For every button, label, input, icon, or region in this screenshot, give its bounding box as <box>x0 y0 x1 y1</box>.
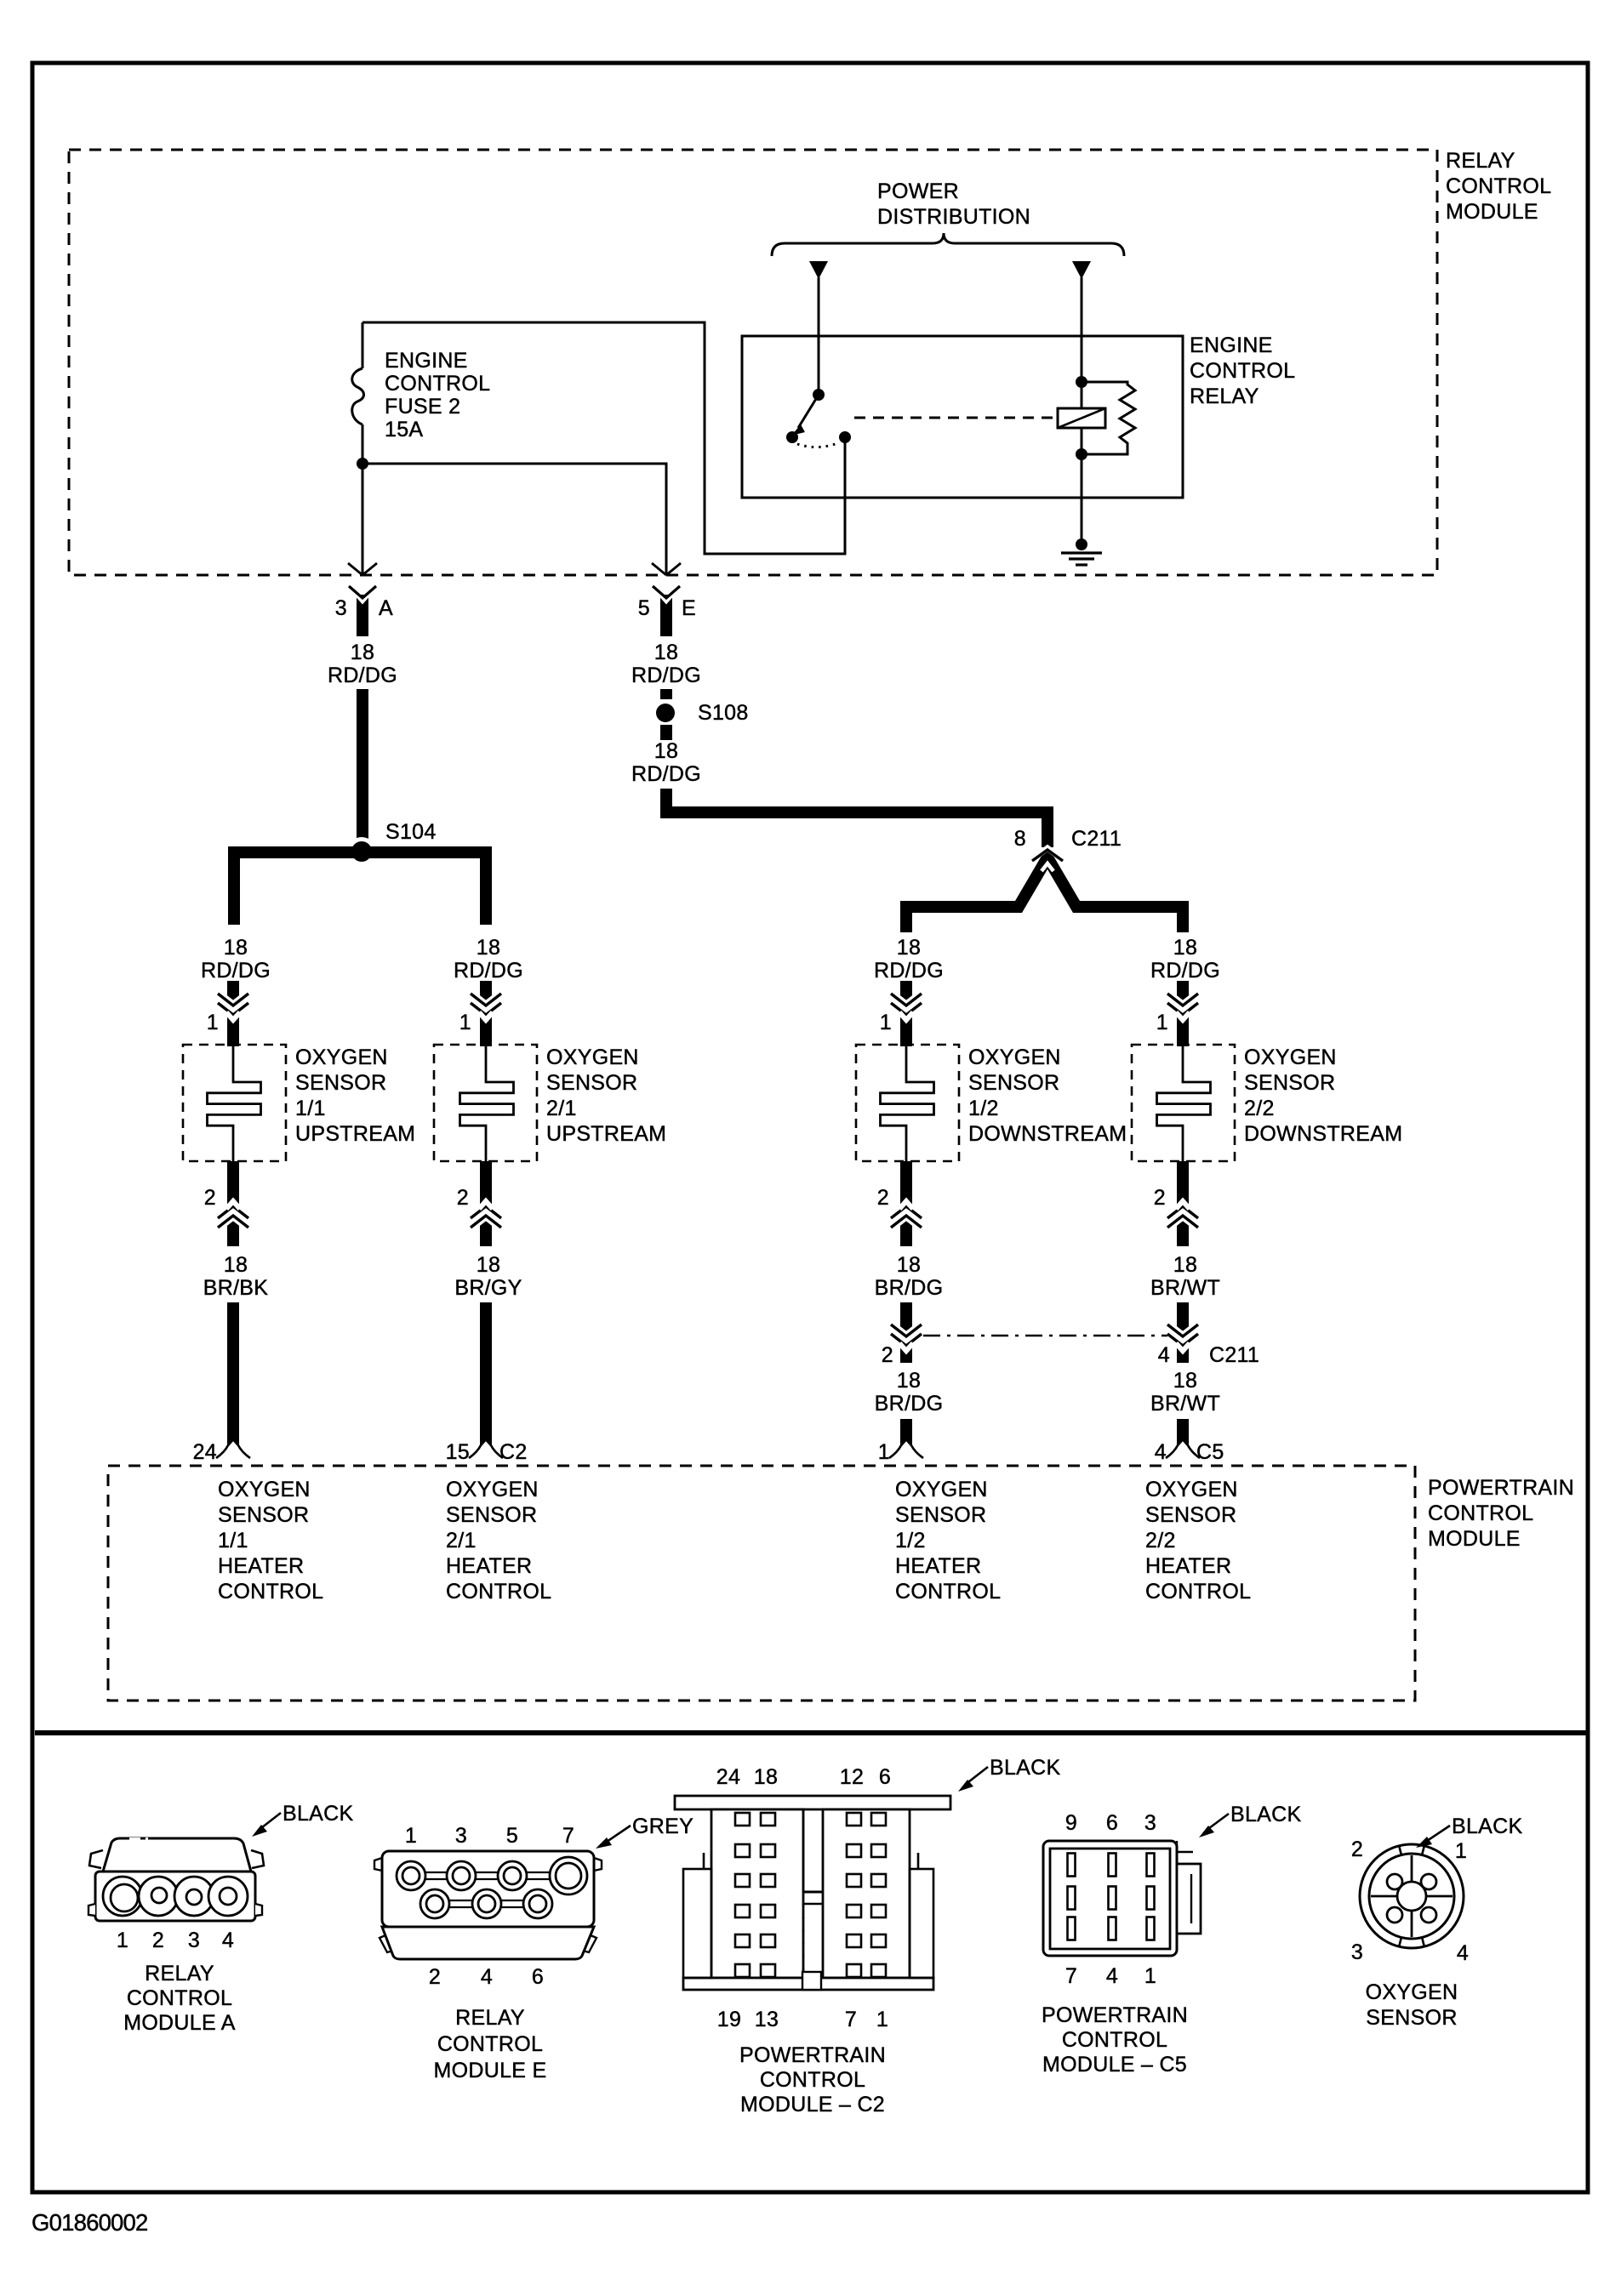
svg-text:CONTROL: CONTROL <box>127 1986 232 2010</box>
svg-text:18: 18 <box>897 1369 921 1393</box>
svg-text:ENGINE: ENGINE <box>1190 333 1273 357</box>
svg-text:CONTROL: CONTROL <box>1446 174 1551 198</box>
svg-text:POWERTRAIN: POWERTRAIN <box>739 2043 886 2067</box>
wire label 18 BR/DG (1/2) <box>875 1253 944 1300</box>
svg-text:G01860002: G01860002 <box>31 2209 148 2236</box>
svg-text:MODULE – C5: MODULE – C5 <box>1042 2053 1187 2077</box>
svg-text:HEATER: HEATER <box>218 1554 304 1578</box>
svg-text:RD/DG: RD/DG <box>631 762 701 786</box>
power feed arrow right <box>1072 261 1091 279</box>
wire label 18 RD/DG (branch 2/1) <box>454 936 523 983</box>
wire 1/2 to PCM pin 1 <box>900 1419 912 1451</box>
svg-text:CONTROL: CONTROL <box>1190 359 1295 383</box>
connector chevron pin 2 (2/1) <box>471 1201 501 1228</box>
label OXYGEN SENSOR 2/1 <box>546 1045 666 1146</box>
svg-text:3: 3 <box>1144 1811 1156 1835</box>
svg-text:24: 24 <box>193 1440 217 1464</box>
label ENGINE CONTROL FUSE 2 15A <box>385 349 490 442</box>
figure number G01860002 <box>31 2209 148 2236</box>
svg-text:BR/WT: BR/WT <box>1150 1392 1220 1416</box>
engine control fuse 2 <box>352 322 364 464</box>
svg-text:18: 18 <box>224 1253 248 1277</box>
wire 2/2 to PCM pin 4 <box>1177 1419 1189 1451</box>
svg-text:18: 18 <box>1173 1253 1197 1277</box>
svg-text:POWERTRAIN: POWERTRAIN <box>1042 2003 1188 2027</box>
svg-text:1: 1 <box>207 1011 219 1034</box>
svg-text:RD/DG: RD/DG <box>454 959 523 983</box>
wire label 18 RD/DG (right feed lower) <box>631 739 701 786</box>
svg-text:2: 2 <box>877 1186 889 1210</box>
oxygen sensor 1/2 box <box>856 1045 959 1161</box>
label BLACK (module A) <box>252 1802 354 1837</box>
svg-text:4: 4 <box>1457 1941 1469 1965</box>
svg-text:HEATER: HEATER <box>895 1554 981 1578</box>
wire label 18 BR/BK (1/1) <box>203 1253 269 1300</box>
relay mechanical link (dashed) <box>854 417 1058 419</box>
svg-text:7: 7 <box>1065 1964 1077 1988</box>
svg-text:5: 5 <box>506 1824 518 1848</box>
wire stub below pin E <box>659 593 673 636</box>
powertrain control module boundary <box>108 1466 1415 1701</box>
wire branch 2/2 to sensor <box>1177 981 1189 1046</box>
svg-text:GREY: GREY <box>632 1815 693 1838</box>
wire label 18 BR/WT (2/2) <box>1150 1253 1220 1300</box>
relay coil <box>1058 376 1105 460</box>
wire label 18 RD/DG (branch 1/2) <box>874 936 944 983</box>
svg-text:15A: 15A <box>385 418 423 442</box>
wire stub below sensor 2/1 <box>480 1161 492 1246</box>
pin labels 24 18 12 6 (C2) <box>716 1765 891 1789</box>
wire right feed to C211 <box>666 789 1047 847</box>
connector relay control module A drawing <box>88 1838 264 1921</box>
svg-text:BLACK: BLACK <box>283 1802 354 1826</box>
svg-text:BLACK: BLACK <box>1230 1803 1302 1826</box>
wire stub below sensor 1/2 <box>900 1161 912 1246</box>
svg-text:18: 18 <box>654 641 678 664</box>
svg-text:1: 1 <box>1455 1839 1467 1863</box>
wire C211 split to downstream branches <box>906 857 1183 932</box>
svg-text:18: 18 <box>1173 1369 1197 1393</box>
svg-text:C211: C211 <box>1209 1343 1259 1367</box>
svg-text:DISTRIBUTION: DISTRIBUTION <box>877 205 1030 229</box>
svg-text:OXYGEN: OXYGEN <box>968 1045 1061 1069</box>
svg-text:1: 1 <box>878 1440 890 1464</box>
pin labels 1 2 3 4 (module A) <box>117 1929 234 1952</box>
svg-text:CONTROL: CONTROL <box>1428 1501 1533 1525</box>
pin labels 2 4 6 (module E) <box>429 1965 544 1989</box>
svg-text:BR/DG: BR/DG <box>875 1392 944 1416</box>
wire label 18 RD/DG (branch 1/1) <box>201 936 271 983</box>
wire label 18 RD/DG (right feed upper) <box>631 641 701 687</box>
svg-text:4: 4 <box>481 1965 493 1989</box>
svg-text:E: E <box>682 596 696 620</box>
label BLACK (C2) <box>958 1756 1061 1792</box>
svg-text:2: 2 <box>1351 1837 1363 1861</box>
svg-text:DOWNSTREAM: DOWNSTREAM <box>1244 1122 1402 1146</box>
svg-text:3: 3 <box>455 1824 467 1848</box>
svg-text:MODULE A: MODULE A <box>123 2011 236 2035</box>
svg-text:DOWNSTREAM: DOWNSTREAM <box>968 1122 1127 1146</box>
bus S104 horizontal <box>234 852 486 925</box>
svg-text:18: 18 <box>351 641 374 664</box>
label OXYGEN SENSOR 2/2 <box>1244 1045 1402 1146</box>
pin labels 19 13 7 1 (C2) <box>717 2008 888 2031</box>
label RELAY CONTROL MODULE E <box>434 2006 547 2082</box>
pin label 2 (2/2) <box>1154 1186 1166 1210</box>
svg-text:1: 1 <box>459 1011 471 1034</box>
svg-text:3: 3 <box>335 596 347 620</box>
svg-text:12: 12 <box>840 1765 864 1789</box>
wire fuse top to relay switch common <box>362 322 845 554</box>
svg-text:7: 7 <box>562 1824 574 1848</box>
svg-text:OXYGEN: OXYGEN <box>218 1478 311 1501</box>
labels 8 C211 <box>1014 827 1122 851</box>
svg-text:RELAY: RELAY <box>145 1962 214 1985</box>
connector relay control module E drawing <box>374 1851 602 1959</box>
connector chevron pin 1 (2/1) <box>471 994 501 1020</box>
pin label 2 (1/1) <box>204 1186 216 1210</box>
connector C211 pin 8 chevron <box>1032 848 1063 871</box>
wire 2/2 to C211 lower <box>1177 1302 1189 1363</box>
oxygen sensor 1/1 box <box>183 1045 286 1161</box>
svg-text:OXYGEN: OXYGEN <box>446 1478 539 1501</box>
svg-text:CONTROL: CONTROL <box>760 2068 865 2092</box>
label BLACK (oxygen sensor) <box>1416 1815 1523 1848</box>
svg-text:FUSE 2: FUSE 2 <box>385 395 460 419</box>
label POWER DISTRIBUTION <box>877 179 1030 229</box>
svg-text:18: 18 <box>654 739 678 763</box>
svg-text:OXYGEN: OXYGEN <box>1244 1045 1337 1069</box>
svg-text:MODULE: MODULE <box>1428 1527 1521 1551</box>
connector C211 chevron (1/2) <box>891 1325 922 1351</box>
pin label 2 at C211 (1/2) <box>882 1343 893 1367</box>
svg-text:C2: C2 <box>499 1440 528 1464</box>
svg-text:MODULE – C2: MODULE – C2 <box>740 2093 885 2117</box>
svg-text:2: 2 <box>429 1965 441 1989</box>
svg-text:MODULE E: MODULE E <box>434 2059 547 2082</box>
svg-text:SENSOR: SENSOR <box>1244 1071 1335 1095</box>
svg-text:2: 2 <box>152 1929 164 1952</box>
connector chevron pin 2 (1/1) <box>218 1201 248 1228</box>
junction fuse output <box>357 458 368 470</box>
connector powertrain control module C5 drawing <box>1043 1841 1201 1956</box>
svg-text:2/2: 2/2 <box>1244 1097 1275 1120</box>
svg-text:SENSOR: SENSOR <box>968 1071 1059 1095</box>
svg-text:C5: C5 <box>1196 1440 1224 1464</box>
pin label 1 (2/2) <box>1156 1011 1168 1034</box>
ground <box>1061 538 1102 565</box>
svg-text:18: 18 <box>754 1765 778 1789</box>
wire 1/1 heater control to PCM pin 24 <box>227 1302 239 1451</box>
svg-text:MODULE: MODULE <box>1446 200 1538 224</box>
svg-text:2: 2 <box>457 1186 469 1210</box>
splice S104 <box>347 837 376 866</box>
label OXYGEN SENSOR <box>1366 1980 1458 2030</box>
svg-text:CONTROL: CONTROL <box>218 1580 323 1604</box>
label OXYGEN SENSOR 1/1 <box>295 1045 415 1146</box>
svg-text:BLACK: BLACK <box>990 1756 1061 1780</box>
wire stub below pin A <box>356 593 369 636</box>
svg-text:OXYGEN: OXYGEN <box>1145 1478 1238 1501</box>
svg-text:CONTROL: CONTROL <box>437 2032 543 2056</box>
C211 alignment line (dash-dot) <box>923 1335 1167 1336</box>
svg-text:1: 1 <box>880 1011 892 1034</box>
connector chevron pin 1 (1/1) <box>218 994 248 1020</box>
connector oxygen sensor drawing <box>1360 1844 1464 1948</box>
pin labels 2 1 3 4 (oxygen sensor) <box>1351 1837 1469 1965</box>
svg-text:2: 2 <box>1154 1186 1166 1210</box>
wire label 18 BR/DG lower (1/2) <box>875 1369 944 1416</box>
svg-text:4: 4 <box>1155 1440 1167 1464</box>
svg-text:CONTROL: CONTROL <box>1145 1580 1251 1604</box>
svg-text:5: 5 <box>638 596 650 620</box>
svg-text:RD/DG: RD/DG <box>874 959 944 983</box>
svg-text:18: 18 <box>897 936 921 960</box>
wire label 18 BR/WT lower (2/2) <box>1150 1369 1220 1416</box>
brace power distribution <box>772 233 1124 256</box>
svg-text:3: 3 <box>1351 1940 1363 1964</box>
oxygen sensor 2/1 box <box>434 1045 537 1161</box>
oxygen sensor 2/2 box <box>1132 1045 1235 1161</box>
svg-text:POWER: POWER <box>877 179 959 203</box>
label S104 <box>385 820 437 844</box>
svg-text:2: 2 <box>882 1343 893 1367</box>
wire dash below S108 <box>660 725 672 740</box>
oxygen sensor 2/1 heater element <box>460 1045 514 1161</box>
svg-text:SENSOR: SENSOR <box>1145 1503 1236 1527</box>
svg-text:BR/DG: BR/DG <box>875 1276 944 1300</box>
svg-text:4: 4 <box>222 1929 234 1952</box>
svg-text:6: 6 <box>532 1965 544 1989</box>
svg-text:13: 13 <box>755 2008 779 2031</box>
relay switch <box>786 389 851 447</box>
PCM entry (1/1) <box>216 1445 250 1458</box>
wire label 18 RD/DG (left feed) <box>328 641 397 687</box>
svg-text:BR/BK: BR/BK <box>203 1276 269 1300</box>
svg-text:SENSOR: SENSOR <box>895 1503 986 1527</box>
PCM pin labels (2/2) <box>1155 1440 1224 1464</box>
svg-text:HEATER: HEATER <box>446 1554 532 1578</box>
PCM entry (1/2) <box>889 1445 923 1458</box>
svg-text:RD/DG: RD/DG <box>328 664 397 687</box>
relay suppression resistor <box>1082 382 1135 454</box>
svg-text:1: 1 <box>1144 1964 1156 1988</box>
oxygen sensor 2/2 heater element <box>1157 1045 1211 1161</box>
PCM entry (2/2) <box>1166 1445 1200 1458</box>
svg-text:UPSTREAM: UPSTREAM <box>295 1122 415 1146</box>
svg-text:1: 1 <box>1156 1011 1168 1034</box>
svg-text:CONTROL: CONTROL <box>895 1580 1001 1604</box>
svg-text:S104: S104 <box>385 820 437 844</box>
svg-text:9: 9 <box>1065 1811 1077 1835</box>
power feed arrow left <box>809 261 828 279</box>
pin labels 1 3 5 7 (module E) <box>405 1824 574 1848</box>
wire stub below sensor 1/1 <box>227 1161 239 1246</box>
svg-text:2/1: 2/1 <box>546 1097 577 1120</box>
label POWERTRAIN CONTROL MODULE <box>1428 1476 1574 1551</box>
svg-text:POWERTRAIN: POWERTRAIN <box>1428 1476 1574 1500</box>
svg-text:19: 19 <box>717 2008 741 2031</box>
svg-text:CONTROL: CONTROL <box>385 372 490 396</box>
svg-text:6: 6 <box>1106 1811 1118 1835</box>
PCM entry (2/1) <box>469 1445 503 1458</box>
pin label 1 (1/2) <box>880 1011 892 1034</box>
svg-text:6: 6 <box>879 1765 891 1789</box>
svg-text:SENSOR: SENSOR <box>446 1503 537 1527</box>
label BLACK (C5) <box>1199 1803 1302 1837</box>
svg-text:OXYGEN: OXYGEN <box>295 1045 388 1069</box>
connector exit pin E <box>652 563 681 598</box>
label GREY (module E) <box>596 1815 693 1849</box>
wire stub below sensor 2/2 <box>1177 1161 1189 1246</box>
svg-text:1: 1 <box>117 1929 128 1952</box>
wire label 18 RD/DG (branch 2/2) <box>1150 936 1220 983</box>
svg-text:RD/DG: RD/DG <box>201 959 271 983</box>
label ENGINE CONTROL RELAY <box>1190 333 1295 408</box>
wire left feed down to S104 <box>357 689 368 847</box>
oxygen sensor 1/1 heater element <box>208 1045 261 1161</box>
connector chevron pin 2 (1/2) <box>891 1201 922 1228</box>
pin label 4 at C211 (2/2) <box>1158 1343 1259 1367</box>
wire branch 1/2 to sensor <box>900 981 912 1046</box>
pin labels 9 6 3 (C5) <box>1065 1811 1156 1835</box>
svg-text:4: 4 <box>1158 1343 1170 1367</box>
svg-text:1/1: 1/1 <box>295 1097 326 1120</box>
svg-text:1: 1 <box>405 1824 417 1848</box>
connector powertrain control module C2 drawing <box>675 1796 950 1990</box>
svg-text:18: 18 <box>224 936 248 960</box>
label OXYGEN SENSOR 1/2 <box>968 1045 1127 1146</box>
svg-text:1: 1 <box>876 2008 888 2031</box>
connector exit pin A <box>348 563 377 598</box>
svg-text:SENSOR: SENSOR <box>218 1503 309 1527</box>
connector chevron pin 1 (1/2) <box>891 994 922 1020</box>
svg-text:A: A <box>379 596 393 620</box>
svg-text:BR/WT: BR/WT <box>1150 1276 1220 1300</box>
svg-text:OXYGEN: OXYGEN <box>546 1045 639 1069</box>
connector chevron pin 2 (2/2) <box>1167 1201 1198 1228</box>
wire 1/2 to C211 lower <box>900 1302 912 1363</box>
svg-text:RD/DG: RD/DG <box>631 664 701 687</box>
svg-text:18: 18 <box>477 1253 500 1277</box>
svg-text:HEATER: HEATER <box>1145 1554 1231 1578</box>
label POWERTRAIN CONTROL MODULE - C5 <box>1042 2003 1188 2077</box>
pin labels 7 4 1 (C5) <box>1065 1964 1156 1988</box>
oxygen sensor 1/2 heater element <box>881 1045 934 1161</box>
label RELAY CONTROL MODULE <box>1446 149 1551 224</box>
label POWERTRAIN CONTROL MODULE - C2 <box>739 2043 886 2117</box>
pin label 2 (2/1) <box>457 1186 469 1210</box>
svg-text:1/1: 1/1 <box>218 1529 248 1553</box>
wire fuse output to pin E exit <box>362 464 666 574</box>
svg-text:15: 15 <box>446 1440 470 1464</box>
wire relay coil to ground <box>1081 454 1083 544</box>
svg-text:2/1: 2/1 <box>446 1529 477 1553</box>
svg-text:18: 18 <box>477 936 500 960</box>
svg-text:4: 4 <box>1106 1964 1118 1988</box>
svg-text:ENGINE: ENGINE <box>385 349 468 373</box>
svg-text:2/2: 2/2 <box>1145 1529 1176 1553</box>
label RELAY CONTROL MODULE A <box>123 1962 236 2035</box>
svg-text:24: 24 <box>716 1765 740 1789</box>
label S108 <box>698 701 749 725</box>
svg-text:CONTROL: CONTROL <box>1062 2028 1167 2052</box>
wire fuse output to pin A exit <box>362 464 364 574</box>
relay control module boundary <box>69 150 1437 575</box>
pin label 2 (1/2) <box>877 1186 889 1210</box>
svg-text:BLACK: BLACK <box>1452 1815 1523 1838</box>
wire branch 2/1 to sensor <box>480 981 492 1046</box>
wire power feed to switch <box>818 277 820 395</box>
svg-text:3: 3 <box>188 1929 200 1952</box>
wire 2/1 heater control to PCM pin 15 <box>480 1302 492 1451</box>
svg-text:RELAY: RELAY <box>1446 149 1515 173</box>
PCM pin labels (1/2) <box>878 1440 890 1464</box>
svg-text:RELAY: RELAY <box>455 2006 525 2030</box>
PCM pin labels (1/1) <box>193 1440 217 1464</box>
wire label 18 BR/GY (2/1) <box>454 1253 522 1300</box>
label OXYGEN SENSOR 2/2 HEATER CONTROL <box>1145 1478 1251 1604</box>
pin label 1 (2/1) <box>459 1011 471 1034</box>
svg-text:18: 18 <box>897 1253 921 1277</box>
svg-text:BR/GY: BR/GY <box>454 1276 522 1300</box>
svg-text:CONTROL: CONTROL <box>446 1580 551 1604</box>
svg-text:7: 7 <box>845 2008 857 2031</box>
label OXYGEN SENSOR 2/1 HEATER CONTROL <box>446 1478 551 1604</box>
connector chevron pin 1 (2/2) <box>1167 994 1198 1020</box>
engine control relay box <box>742 336 1183 498</box>
svg-text:RD/DG: RD/DG <box>1150 959 1220 983</box>
pin labels 5 E <box>638 596 696 620</box>
svg-text:SENSOR: SENSOR <box>546 1071 637 1095</box>
wire dash above S108 <box>660 689 672 699</box>
wire power feed to relay coil <box>1081 277 1083 382</box>
svg-text:UPSTREAM: UPSTREAM <box>546 1122 666 1146</box>
label OXYGEN SENSOR 1/1 HEATER CONTROL <box>218 1478 323 1604</box>
wire branch 1/1 to sensor <box>227 981 239 1046</box>
svg-text:SENSOR: SENSOR <box>1366 2006 1457 2030</box>
label OXYGEN SENSOR 1/2 HEATER CONTROL <box>895 1478 1001 1604</box>
svg-text:S108: S108 <box>698 701 749 725</box>
pin labels 3 A <box>335 596 393 620</box>
splice S108 <box>656 704 675 722</box>
connector C211 chevron (2/2) <box>1167 1325 1198 1351</box>
svg-text:2: 2 <box>204 1186 216 1210</box>
svg-text:OXYGEN: OXYGEN <box>1366 1980 1458 2004</box>
svg-text:8: 8 <box>1014 827 1026 851</box>
svg-text:1/2: 1/2 <box>895 1529 926 1553</box>
pin label 1 (1/1) <box>207 1011 219 1034</box>
PCM pin labels (2/1) <box>446 1440 528 1464</box>
svg-text:18: 18 <box>1173 936 1197 960</box>
svg-text:RELAY: RELAY <box>1190 385 1259 408</box>
svg-text:C211: C211 <box>1071 827 1122 851</box>
svg-text:1/2: 1/2 <box>968 1097 999 1120</box>
svg-text:OXYGEN: OXYGEN <box>895 1478 988 1501</box>
svg-text:SENSOR: SENSOR <box>295 1071 386 1095</box>
